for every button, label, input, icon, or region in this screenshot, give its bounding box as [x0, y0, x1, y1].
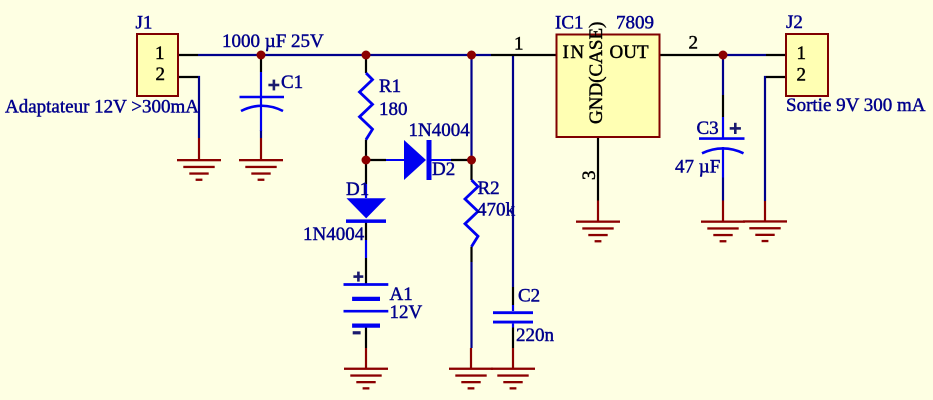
svg-text:J2: J2 — [786, 12, 803, 33]
svg-text:1: 1 — [797, 43, 807, 64]
svg-text:2: 2 — [689, 33, 699, 54]
svg-text:R2: R2 — [478, 178, 500, 199]
svg-text:1000 µF 25V: 1000 µF 25V — [222, 31, 324, 52]
svg-text:7809: 7809 — [616, 13, 654, 34]
svg-text:C3: C3 — [697, 118, 719, 139]
svg-text:OUT: OUT — [610, 42, 649, 63]
svg-text:IN: IN — [563, 42, 586, 63]
svg-text:1: 1 — [155, 43, 165, 64]
svg-text:IC1: IC1 — [555, 13, 584, 34]
svg-text:1N4004: 1N4004 — [409, 120, 471, 141]
svg-text:J1: J1 — [136, 13, 153, 34]
svg-text:2: 2 — [797, 65, 807, 86]
svg-text:D2: D2 — [432, 159, 455, 180]
svg-text:Adaptateur 12V >300mA: Adaptateur 12V >300mA — [5, 97, 199, 118]
svg-text:R1: R1 — [379, 76, 401, 97]
svg-text:1N4004: 1N4004 — [303, 224, 365, 245]
svg-text:470k: 470k — [477, 200, 516, 221]
svg-text:220n: 220n — [516, 325, 555, 346]
svg-text:180: 180 — [379, 99, 408, 120]
svg-text:1: 1 — [514, 34, 524, 55]
svg-text:GND(CASE): GND(CASE) — [586, 22, 607, 124]
svg-text:12V: 12V — [390, 302, 423, 323]
svg-text:3: 3 — [579, 171, 600, 181]
svg-text:C2: C2 — [518, 286, 540, 307]
svg-text:D1: D1 — [346, 179, 369, 200]
svg-text:Sortie 9V 300 mA: Sortie 9V 300 mA — [786, 95, 926, 116]
svg-text:C1: C1 — [281, 72, 303, 93]
svg-text:2: 2 — [156, 64, 166, 85]
svg-text:47 µF: 47 µF — [675, 157, 720, 178]
